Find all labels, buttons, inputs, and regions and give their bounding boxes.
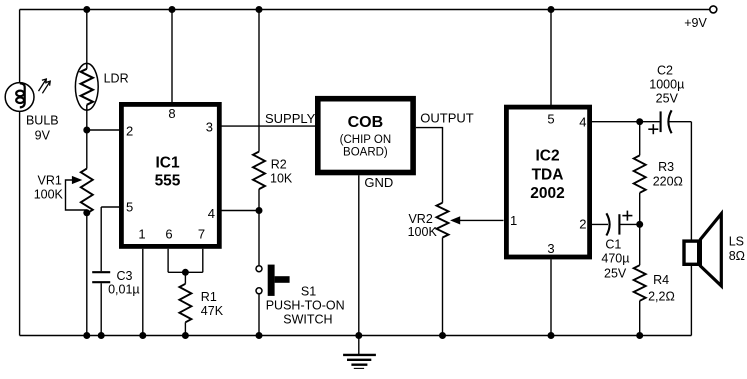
svg-text:1: 1 [138,226,145,241]
svg-text:47K: 47K [201,304,224,318]
svg-text:6: 6 [165,226,172,241]
svg-text:100K: 100K [408,225,438,239]
svg-text:OUTPUT: OUTPUT [420,110,474,125]
capacitor C1 [606,211,632,236]
svg-text:25V: 25V [656,92,679,106]
wire to IC1 pin 2 [87,129,120,131]
junction dot VR1 bottom [83,209,90,216]
LDR photoresistor [75,63,98,110]
junction dot top rail - pin8 [169,6,176,13]
svg-text:220Ω: 220Ω [653,175,683,189]
wire R4 top [639,224,641,265]
svg-text:R2: R2 [271,158,287,172]
switch S1 push-to-on [256,265,290,296]
COB chip-on-board box [318,99,413,173]
junction dot rail-VR2 [439,332,446,339]
wire LDR branch top [86,10,88,64]
svg-text:2,2Ω: 2,2Ω [648,290,675,304]
wire VR1 to ground rail [86,214,88,336]
resistor R4 [634,265,646,301]
svg-text:2: 2 [579,217,586,232]
ground symbol [343,336,376,369]
svg-text:VR1: VR1 [38,173,62,187]
potentiometer VR2 wiper arrow [450,216,503,224]
wire IC1 pin3 to COB (SUPPLY) [220,125,316,127]
wire R2 branch top [258,10,260,152]
resistor R2 [253,152,265,190]
svg-text:5: 5 [547,112,554,127]
capacitor C3 [92,272,110,282]
junction dot rail-IC2pin3 [548,332,555,339]
wire switch to rail [258,294,260,336]
potentiometer VR2 resistor body [437,203,449,238]
wire speaker branch [690,122,692,336]
svg-text:IC1: IC1 [155,155,180,172]
svg-text:8Ω: 8Ω [729,249,745,263]
junction dot rail-C3 [98,332,105,339]
wire C3 branch upper [100,207,102,271]
svg-text:8: 8 [168,106,175,121]
wire R1 to rail [184,322,186,335]
wire R2 to pin4 node [258,189,260,210]
junction dot rail-S1 [256,332,263,339]
junction dot rail-R4 [636,332,643,339]
wire R3 to C1 node [639,193,641,225]
wire pin 1 to rail [142,249,144,336]
svg-text:10K: 10K [270,172,293,186]
svg-text:0,01µ: 0,01µ [108,283,140,297]
wire top +9V rail [20,9,710,11]
svg-text:C1: C1 [605,238,621,252]
svg-text:BULB: BULB [26,114,59,128]
resistor R3 [634,155,646,192]
svg-text:BOARD): BOARD) [343,146,388,158]
wire pin 4 to node [220,210,260,212]
loudspeaker LS [684,214,721,286]
svg-text:R1: R1 [201,290,217,304]
svg-text:R3: R3 [658,160,674,174]
wire COB GND down [358,175,360,335]
node +9V terminal circle [710,6,717,13]
wire bottom ground rail [20,335,692,337]
svg-text:COB: COB [348,114,384,131]
svg-text:2: 2 [126,124,133,139]
svg-text:SUPPLY: SUPPLY [265,111,316,126]
wire pin 5 left [101,206,119,208]
svg-text:C2: C2 [657,64,673,78]
svg-text:GND: GND [364,175,393,190]
wire pin 7 stub [202,249,204,272]
junction dot top rail - IC2 pin5 [548,6,555,13]
wire pins 6-7 tie [168,271,203,273]
svg-text:7: 7 [198,226,205,241]
wire pin 6 stub [167,249,169,272]
svg-text:(CHIP ON: (CHIP ON [340,134,392,146]
bulb BULB 9V [5,83,34,112]
wire LDR to VR1 [86,110,88,168]
wire R3 top [639,122,641,156]
svg-text:3: 3 [206,119,213,134]
junction dot pin4 node [256,207,263,214]
wire IC2 pin2 to C1 [592,223,608,225]
wire bulb branch vertical [19,10,21,336]
wire pin 3 IC2 to rail [550,259,552,335]
junction dot pins 6-7 [182,269,189,276]
svg-text:LDR: LDR [104,71,129,85]
potentiometer VR1 resistor body [81,169,93,214]
wire C1 to node [619,223,639,225]
wire C2 node to plate [640,121,660,123]
junction dot rail-VR1 [83,332,90,339]
svg-text:S1: S1 [301,284,316,298]
svg-text:1000µ: 1000µ [649,78,684,92]
svg-text:VR2: VR2 [408,212,432,226]
wire node to switch [258,211,260,266]
svg-text:TDA: TDA [532,166,564,183]
svg-text:IC2: IC2 [535,148,559,165]
potentiometer VR1 wiper arrow [66,176,87,210]
wire pin 5 IC2 to rail [550,10,552,106]
junction dot top rail - LDR branch [83,6,90,13]
wire IC2 pin4 to C2 node [592,121,640,123]
svg-text:SWITCH: SWITCH [283,313,332,327]
svg-text:5: 5 [126,199,133,214]
op-amp IC1 555 box [121,104,219,246]
wire R4 to rail [639,301,641,336]
svg-text:R4: R4 [653,273,669,287]
svg-text:9V: 9V [35,129,51,143]
junction dot top rail - R2 branch [256,6,263,13]
wire pin 8 to rail [171,10,173,103]
svg-text:100K: 100K [34,187,64,201]
junction dot node pin2 [83,127,90,134]
svg-text:470µ: 470µ [601,252,629,266]
junction dot C1 node [636,221,643,228]
svg-text:25V: 25V [604,266,627,280]
svg-text:4: 4 [579,115,586,130]
svg-text:2002: 2002 [530,185,564,202]
svg-text:1: 1 [510,213,517,228]
svg-text:PUSH-TO-ON: PUSH-TO-ON [266,299,345,313]
wire VR2 to rail [442,238,444,336]
svg-text:4: 4 [208,206,215,221]
junction dot rail-GND [355,332,362,339]
svg-text:LS: LS [729,235,744,249]
junction dot rail-pin1 [139,332,146,339]
junction dot rail-R1 [182,332,189,339]
wire C3 branch lower [100,283,102,335]
junction dot C2 node [636,118,643,125]
svg-text:+9V: +9V [684,16,707,30]
wire C2 to speaker branch [669,121,692,123]
svg-text:3: 3 [547,241,554,256]
svg-text:C3: C3 [117,269,133,283]
wire COB OUTPUT [416,128,443,203]
amplifier IC2 TDA2002 box [506,107,589,257]
wire junction to R1 [184,272,186,284]
resistor R1 [179,284,191,323]
bulb light emission arrows [39,79,51,93]
capacitor C2 [648,110,671,134]
svg-text:555: 555 [155,172,181,189]
